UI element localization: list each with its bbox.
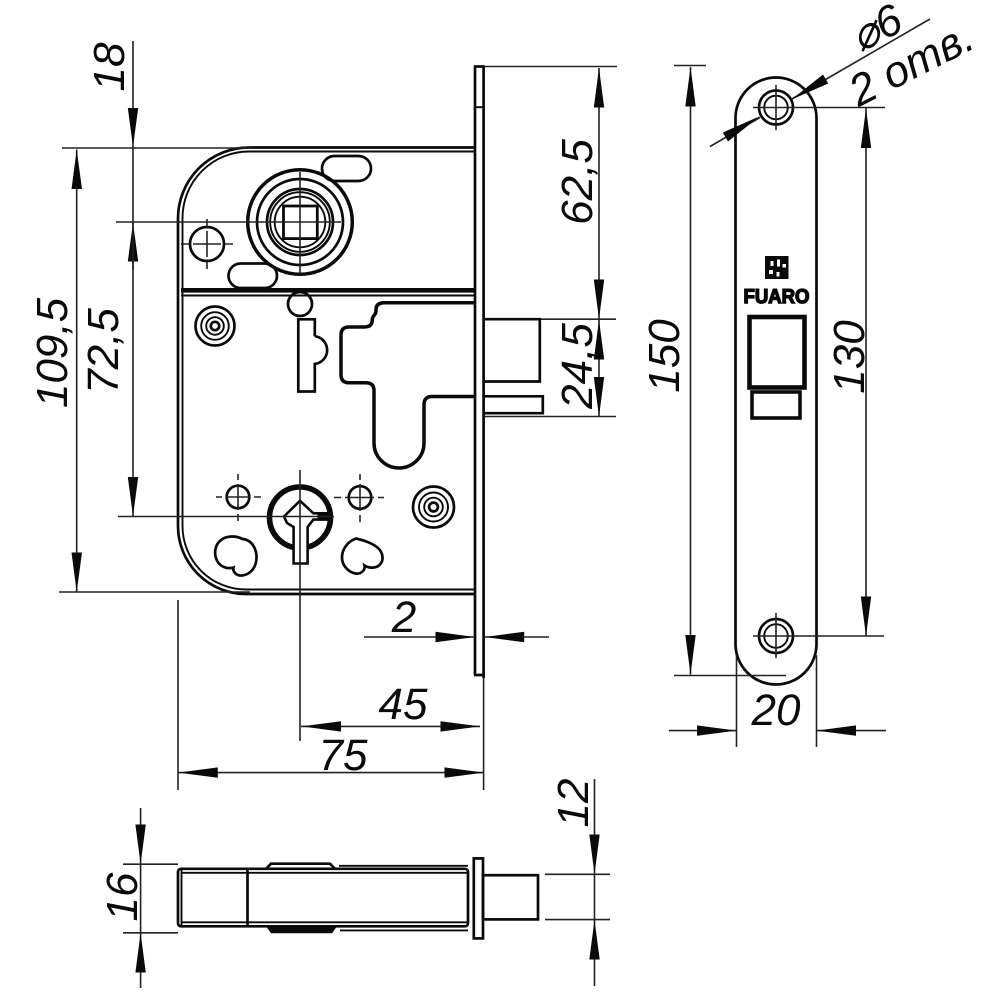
dim 12 arrow up	[589, 920, 599, 960]
dim 24,5 arrow bottom	[594, 377, 604, 417]
hub ring 3	[267, 189, 333, 255]
case profile inner top line	[181, 872, 468, 874]
svg-text:72,5: 72,5	[79, 308, 128, 394]
screw hole top with cross	[181, 219, 233, 269]
bottom hole centerline vertical	[775, 613, 777, 658]
ext line lock bottom y592	[59, 591, 250, 593]
dim 75 arrow left	[178, 767, 218, 777]
MAIN VIEW GROUP	[116, 67, 543, 742]
faceplate bottom cap	[474, 674, 485, 677]
dim 109,5 arrow bottom	[72, 553, 83, 593]
slide bar with bump	[298, 319, 327, 391]
divider thick band	[181, 288, 474, 293]
faceplate top cap	[474, 65, 485, 68]
svg-text:16: 16	[98, 872, 147, 921]
latch side profile	[483, 875, 538, 919]
dim 24,5 line	[598, 319, 600, 417]
dim 18 arrow up	[128, 223, 138, 262]
lock case inner outline	[183, 152, 475, 590]
svg-text:109,5: 109,5	[28, 297, 77, 408]
ext line case bottom left	[123, 932, 178, 934]
dim 72,5 line	[132, 223, 134, 517]
dim 16 shaft	[140, 808, 142, 988]
latch lower block	[485, 396, 543, 413]
screw hole bottom-right with cross	[334, 474, 384, 522]
ext line plate left down	[736, 655, 738, 747]
case seam vertical	[246, 869, 249, 927]
dim 12 shaft	[594, 779, 596, 986]
follower T-slot thick outline	[341, 303, 474, 468]
small circle on centerline below divider	[288, 292, 312, 316]
DIMENSIONS MAIN VIEW	[28, 41, 617, 790]
hub outer circle	[248, 170, 353, 275]
key profile inside follower	[284, 501, 327, 564]
ext line case top left	[123, 863, 178, 865]
grommet bottom-right rings	[413, 487, 454, 528]
dim 62,5 arrow top	[594, 68, 604, 108]
oblong slot top	[322, 156, 371, 181]
ext line plate top	[674, 65, 706, 67]
svg-text:12: 12	[549, 779, 598, 828]
dim 75 arrow right	[445, 767, 485, 777]
bottom boss strip (dark)	[266, 926, 337, 933]
faceplate side profile	[474, 858, 483, 938]
top hole centerline vertical	[775, 85, 777, 130]
ext line faceplate right down	[483, 678, 485, 790]
lock case outer outline	[178, 148, 474, 595]
svg-text:18: 18	[85, 42, 134, 91]
hub centerline vertical	[299, 172, 301, 274]
hub ring 4	[270, 192, 330, 252]
top hole centerline horizontal + ext for 130	[753, 107, 885, 109]
ext line lock top y148	[62, 147, 252, 149]
dim 150 line	[690, 67, 692, 675]
key slot black dash	[318, 513, 329, 520]
SIDE PROFILE VIEW	[178, 858, 538, 938]
dim 20 line left	[669, 730, 737, 732]
FACEPLATE FRONT VIEW	[736, 78, 886, 685]
leader arrow upper-right	[791, 75, 828, 100]
leader line for holes	[710, 118, 760, 147]
svg-text:FUARO: FUARO	[743, 286, 809, 308]
top double line after strip	[339, 865, 468, 867]
follower circle (keyhole)	[270, 487, 331, 548]
dim 45 arrow right	[441, 721, 481, 731]
dim 62,5 line	[598, 68, 600, 319]
bottom double line after strip	[340, 929, 468, 931]
FUARO logo mark	[765, 256, 789, 279]
ext line latch bottom right	[545, 919, 610, 921]
ext line faceplate top right	[485, 66, 617, 68]
ext line plate bottom	[674, 675, 786, 677]
dim 130 line	[865, 108, 867, 636]
faceplate main view left edge	[474, 67, 477, 676]
ext line latch top right	[541, 318, 616, 320]
svg-text:2: 2	[391, 593, 417, 642]
dim 130 arrow bottom	[861, 597, 871, 637]
dim 12 arrow down	[589, 835, 599, 875]
dim 72,5 arrow bottom	[128, 477, 138, 517]
top boss strip	[266, 864, 335, 869]
DIMENSIONS SIDE VIEW	[98, 779, 610, 988]
svg-text:45: 45	[378, 680, 428, 729]
bottom hole centerline horizontal + ext for 130	[753, 635, 884, 637]
follower/dim centerline vertical	[299, 470, 301, 741]
hub square hole	[284, 206, 318, 239]
case profile inner bottom line	[181, 921, 468, 923]
dim 20 line right	[817, 730, 887, 732]
ext line latch top right	[545, 873, 610, 875]
svg-text:130: 130	[825, 320, 874, 394]
dim 45 arrow left	[302, 721, 342, 731]
hub inner circle	[275, 197, 326, 248]
leader arrow lower-left	[723, 116, 760, 141]
dim 62,5 arrow bottom	[594, 280, 604, 320]
heart cutout left	[215, 536, 256, 575]
bottom screw hole inner	[764, 624, 788, 648]
svg-text:150: 150	[640, 319, 689, 393]
svg-text:75: 75	[318, 731, 368, 780]
dim 109,5 line	[76, 150, 78, 593]
svg-text:24,5: 24,5	[553, 323, 602, 410]
dim 2 arrow left	[436, 632, 476, 642]
ext line latch bottom right	[485, 416, 616, 418]
DIMENSIONS PLATE VIEW	[640, 0, 982, 747]
ext line plate right down	[816, 655, 818, 747]
dim 2 line left	[364, 636, 475, 638]
latch bolt head	[485, 319, 540, 381]
ext line left edge down	[177, 600, 179, 790]
hub ring 2	[257, 179, 343, 265]
dim 75 line	[178, 772, 484, 774]
dim 24,5 arrow top	[594, 320, 604, 360]
heart cutout right	[342, 539, 383, 574]
case profile outer	[178, 869, 468, 927]
svg-text:62,5: 62,5	[553, 139, 602, 225]
grommet upper-left rings	[196, 307, 235, 346]
small rectangular hole	[752, 392, 800, 418]
dim 20 arrow right	[817, 725, 857, 735]
faceplate tick at screw level	[475, 106, 484, 108]
top screw hole outer	[759, 91, 793, 125]
dim 20 arrow left	[697, 725, 737, 735]
dim 16 arrow down	[135, 825, 145, 865]
divider thin line	[181, 295, 474, 297]
dim 18 shaft	[132, 41, 134, 270]
dim 150 arrow bottom	[685, 635, 695, 675]
dim 2 arrow right	[485, 632, 525, 642]
dim 18 arrow down	[128, 108, 138, 147]
top screw hole inner	[764, 96, 788, 120]
dim 2 line right	[485, 636, 549, 638]
faceplate main view right edge	[482, 67, 485, 679]
hub centerline horizontal	[116, 221, 341, 223]
latch rectangular hole	[750, 317, 805, 388]
dim 150 arrow top	[685, 67, 695, 107]
follower centerline horizontal	[118, 516, 334, 518]
svg-text:20: 20	[750, 686, 801, 735]
bottom screw hole outer	[759, 619, 793, 653]
case inner left line	[181, 870, 183, 925]
plate outline	[736, 78, 817, 685]
dim 45 line	[301, 725, 480, 727]
screw hole bottom-left with cross	[216, 474, 261, 521]
oblong slot mid-left	[229, 264, 278, 289]
dim 130 arrow top	[861, 109, 871, 149]
dim 109,5 arrow top	[72, 150, 83, 190]
dim 16 arrow up	[135, 933, 145, 973]
